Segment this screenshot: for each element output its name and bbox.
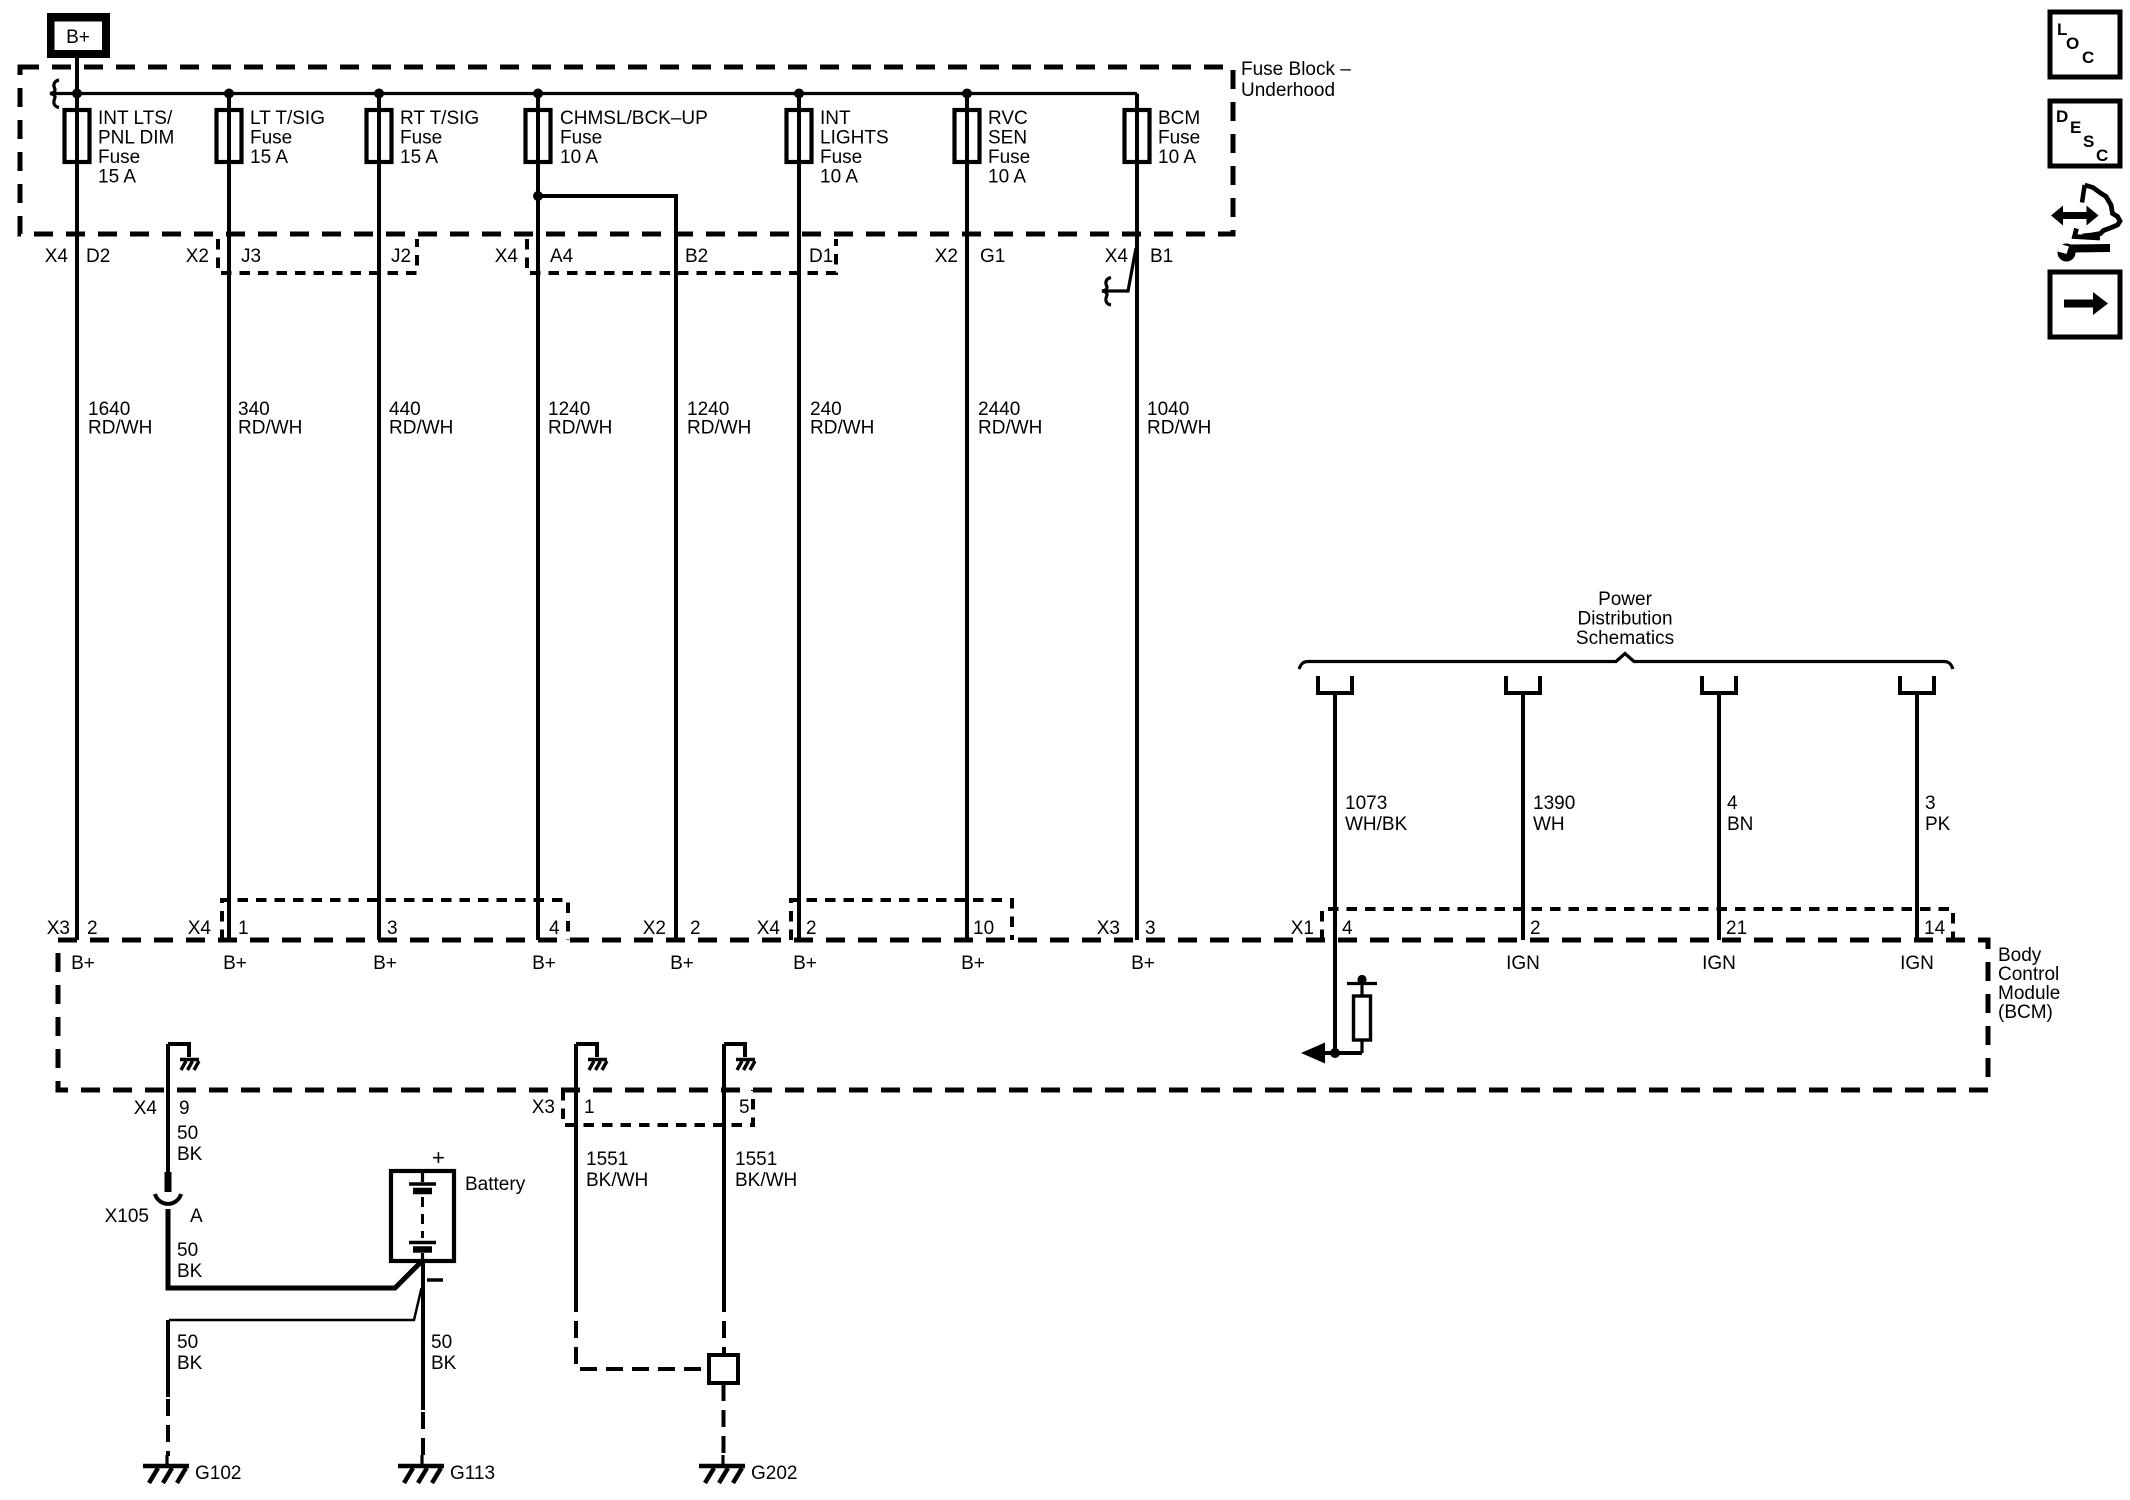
node: bus junction fuse 4 bbox=[533, 89, 543, 99]
wire label 1390 WH bbox=[1533, 793, 1575, 835]
svg-text:Fuse: Fuse bbox=[1158, 128, 1200, 149]
label: fuse F4 bbox=[560, 108, 708, 168]
svg-text:X4: X4 bbox=[188, 918, 212, 939]
svg-text:B+: B+ bbox=[223, 953, 247, 974]
connector symbol: feed to X1-14 bbox=[1900, 676, 1934, 693]
svg-text:B+: B+ bbox=[670, 953, 694, 974]
svg-text:A: A bbox=[190, 1206, 203, 1227]
svg-text:IGN: IGN bbox=[1702, 953, 1736, 974]
fuse F3 RT T/SIG bbox=[367, 110, 392, 162]
svg-text:O: O bbox=[2066, 34, 2079, 53]
node: CHMSL branch junction bbox=[533, 191, 543, 201]
wire: internal X1-4 horizontal bbox=[1322, 1051, 1362, 1055]
svg-text:1073: 1073 bbox=[1345, 793, 1387, 814]
fuse F7 BCM bbox=[1125, 110, 1150, 162]
splice block bbox=[709, 1355, 738, 1383]
wire label 2440 RD/WH bbox=[978, 399, 1042, 439]
connector X1 dotted box (BCM pins 4,2,21,14) bbox=[1322, 909, 1953, 940]
svg-text:RD/WH: RD/WH bbox=[1147, 418, 1211, 439]
svg-text:BK/WH: BK/WH bbox=[735, 1170, 797, 1191]
svg-text:3: 3 bbox=[1145, 918, 1156, 939]
svg-text:RD/WH: RD/WH bbox=[687, 418, 751, 439]
svg-text:X2: X2 bbox=[186, 246, 209, 267]
svg-text:B+: B+ bbox=[793, 953, 817, 974]
svg-text:10 A: 10 A bbox=[1158, 147, 1196, 168]
wire label 240 RD/WH bbox=[810, 399, 874, 439]
ground (BCM internal, X3-5) bbox=[724, 1044, 755, 1070]
svg-text:X1: X1 bbox=[1291, 918, 1314, 939]
svg-text:RVC: RVC bbox=[988, 108, 1028, 129]
svg-text:E: E bbox=[2070, 118, 2081, 137]
svg-text:WH/BK: WH/BK bbox=[1345, 814, 1408, 835]
wire label 50 BK (G113) bbox=[431, 1332, 457, 1374]
wire label 50 BK (G102) bbox=[177, 1332, 203, 1374]
svg-text:4: 4 bbox=[1727, 793, 1738, 814]
label: Fuse Block - Underhood bbox=[1241, 59, 1351, 101]
wire label 1073 WH/BK bbox=[1345, 793, 1408, 835]
ground G102 bbox=[143, 1455, 189, 1483]
connector X2 dotted box (pins J3,J2) bbox=[218, 239, 417, 273]
svg-text:9: 9 bbox=[179, 1098, 190, 1119]
svg-text:RD/WH: RD/WH bbox=[238, 418, 302, 439]
svg-text:X2: X2 bbox=[643, 918, 666, 939]
wire: BCM X4-9 ground lead bbox=[166, 1044, 170, 1174]
svg-text:A4: A4 bbox=[550, 246, 574, 267]
svg-text:(BCM): (BCM) bbox=[1998, 1002, 2053, 1023]
svg-text:SEN: SEN bbox=[988, 128, 1027, 149]
svg-text:RD/WH: RD/WH bbox=[810, 418, 874, 439]
svg-text:X3: X3 bbox=[532, 1097, 555, 1118]
svg-text:B1: B1 bbox=[1150, 246, 1173, 267]
wire label 3 PK bbox=[1925, 793, 1951, 835]
fuse F2 LT T/SIG bbox=[217, 110, 242, 162]
wire continuation squiggle at bus start bbox=[50, 80, 59, 108]
svg-text:Fuse: Fuse bbox=[98, 147, 140, 168]
svg-text:10 A: 10 A bbox=[820, 167, 858, 188]
wire label 1240 RD/WH (A4) bbox=[548, 399, 612, 439]
svg-text:1: 1 bbox=[238, 918, 249, 939]
svg-text:BN: BN bbox=[1727, 814, 1753, 835]
svg-text:INT LTS/: INT LTS/ bbox=[98, 108, 173, 129]
svg-text:15 A: 15 A bbox=[250, 147, 288, 168]
svg-text:C: C bbox=[2082, 48, 2094, 67]
svg-text:Module: Module bbox=[1998, 983, 2060, 1004]
svg-text:Fuse: Fuse bbox=[988, 147, 1030, 168]
connector X4 dotted box (pins A4,B2,D1) bbox=[527, 239, 836, 273]
svg-text:Distribution: Distribution bbox=[1577, 609, 1672, 630]
svg-text:WH: WH bbox=[1533, 814, 1565, 835]
wire continuation marker at B1 bbox=[1102, 248, 1136, 305]
connector X4 dotted box (BCM pins 1,3,4) bbox=[222, 900, 568, 940]
svg-text:INT: INT bbox=[820, 108, 851, 129]
wire: power feed 1390 WH bbox=[1521, 693, 1525, 940]
svg-text:50: 50 bbox=[431, 1332, 452, 1353]
svg-text:X105: X105 bbox=[105, 1206, 149, 1227]
node: bus junction fuse 6 bbox=[962, 89, 972, 99]
svg-text:BK: BK bbox=[177, 1261, 203, 1282]
svg-text:Schematics: Schematics bbox=[1576, 628, 1674, 649]
svg-text:Underhood: Underhood bbox=[1241, 80, 1335, 101]
icon: LOC reference box bbox=[2050, 12, 2120, 77]
svg-text:4: 4 bbox=[1342, 918, 1353, 939]
svg-text:3: 3 bbox=[1925, 793, 1936, 814]
fuse F1 INT LTS/PNL DIM bbox=[65, 110, 90, 162]
wire: BCM X3-5 ground lead bbox=[722, 1044, 726, 1295]
wire: BCM X3-1 ground lead bbox=[574, 1044, 578, 1295]
svg-text:3: 3 bbox=[387, 918, 398, 939]
svg-text:10 A: 10 A bbox=[988, 167, 1026, 188]
label: fuse F2 bbox=[250, 108, 325, 168]
svg-text:IGN: IGN bbox=[1506, 953, 1540, 974]
svg-text:1551: 1551 bbox=[586, 1149, 628, 1170]
label: fuse F7 bbox=[1158, 108, 1200, 168]
svg-text:2: 2 bbox=[87, 918, 98, 939]
wire: battery negative lead down bbox=[421, 1261, 425, 1410]
svg-text:Control: Control bbox=[1998, 964, 2059, 985]
resistor: BCM internal load bbox=[1347, 975, 1377, 1053]
label: fuse F6 bbox=[988, 108, 1030, 188]
icon: vehicle diagnostic with wrench bbox=[2051, 185, 2120, 262]
wire label 1551 BK/WH (right) bbox=[735, 1149, 797, 1191]
wire label 4 BN bbox=[1727, 793, 1753, 835]
svg-text:LT T/SIG: LT T/SIG bbox=[250, 108, 325, 129]
svg-text:1551: 1551 bbox=[735, 1149, 777, 1170]
ground (BCM internal, X4-9) bbox=[168, 1044, 199, 1070]
svg-text:Fuse Block –: Fuse Block – bbox=[1241, 59, 1351, 80]
wire: BCM fuse to BCM pin X3-3 bbox=[1135, 94, 1139, 941]
svg-text:B+: B+ bbox=[532, 953, 556, 974]
icon: DESC reference box bbox=[2050, 101, 2120, 166]
wire: RT T/SIG fuse to BCM pin X4-3 bbox=[377, 94, 381, 941]
svg-text:14: 14 bbox=[1924, 918, 1946, 939]
svg-text:Fuse: Fuse bbox=[560, 128, 602, 149]
svg-text:5: 5 bbox=[739, 1097, 750, 1118]
svg-text:B+: B+ bbox=[66, 27, 90, 48]
connector X3 dotted box (BCM pins 1,5) bbox=[563, 1090, 753, 1125]
svg-text:BCM: BCM bbox=[1158, 108, 1200, 129]
svg-text:G102: G102 bbox=[195, 1463, 241, 1484]
wire (dashed): X3-5 to splice bbox=[722, 1295, 726, 1354]
wire (dashed): splice to G202 bbox=[722, 1384, 726, 1456]
ground G202 bbox=[699, 1455, 745, 1483]
svg-text:Battery: Battery bbox=[465, 1174, 526, 1195]
node: bus junction at B+ drop bbox=[72, 89, 82, 99]
svg-text:2: 2 bbox=[690, 918, 701, 939]
node: bus junction fuse 3 bbox=[374, 89, 384, 99]
svg-text:X3: X3 bbox=[1097, 918, 1120, 939]
svg-text:X4: X4 bbox=[45, 246, 69, 267]
svg-text:RD/WH: RD/WH bbox=[389, 418, 453, 439]
svg-text:X3: X3 bbox=[47, 918, 70, 939]
label: Body Control Module (BCM) bbox=[1998, 945, 2060, 1023]
wire: INT LIGHTS fuse to BCM pin X4-2 bbox=[797, 94, 801, 941]
svg-text:4: 4 bbox=[549, 918, 560, 939]
svg-text:B2: B2 bbox=[685, 246, 708, 267]
svg-text:LIGHTS: LIGHTS bbox=[820, 128, 889, 149]
svg-text:50: 50 bbox=[177, 1240, 198, 1261]
label: fuse F1 bbox=[98, 108, 174, 188]
ground G113 bbox=[398, 1455, 444, 1483]
wire: LT T/SIG fuse to BCM pin X4-1 bbox=[227, 94, 231, 941]
wire label 1040 RD/WH bbox=[1147, 399, 1211, 439]
arrow: internal circuit continues bbox=[1301, 1043, 1325, 1064]
svg-text:D1: D1 bbox=[809, 246, 833, 267]
bus wire B+ distribution bbox=[52, 92, 1137, 95]
svg-text:J3: J3 bbox=[241, 246, 261, 267]
svg-text:RD/WH: RD/WH bbox=[978, 418, 1042, 439]
svg-text:X4: X4 bbox=[495, 246, 519, 267]
svg-text:Fuse: Fuse bbox=[820, 147, 862, 168]
fuse F6 RVC SEN bbox=[955, 110, 980, 162]
svg-text:10: 10 bbox=[973, 918, 994, 939]
label: Power Distribution Schematics bbox=[1576, 589, 1674, 649]
svg-text:S: S bbox=[2083, 132, 2094, 151]
svg-text:21: 21 bbox=[1726, 918, 1747, 939]
svg-text:G202: G202 bbox=[751, 1463, 797, 1484]
wire: X105 to battery negative bbox=[168, 1209, 421, 1288]
label: fuse F3 bbox=[400, 108, 479, 168]
ground (BCM internal, X3-1) bbox=[576, 1044, 607, 1070]
svg-text:RD/WH: RD/WH bbox=[88, 418, 152, 439]
svg-text:BK: BK bbox=[177, 1144, 203, 1165]
wire: power feed 1073 WH/BK bbox=[1333, 693, 1337, 1053]
fuse block underhood dashed box bbox=[20, 67, 1233, 234]
brace for power distribution sources bbox=[1299, 654, 1953, 670]
svg-text:X4: X4 bbox=[1105, 246, 1129, 267]
svg-text:G113: G113 bbox=[450, 1463, 495, 1484]
svg-text:J2: J2 bbox=[391, 246, 411, 267]
svg-text:BK: BK bbox=[431, 1353, 457, 1374]
svg-text:RT T/SIG: RT T/SIG bbox=[400, 108, 479, 129]
svg-text:CHMSL/BCK–UP: CHMSL/BCK–UP bbox=[560, 108, 708, 129]
svg-text:C: C bbox=[2096, 146, 2108, 165]
wire: branch CHMSL to B2 bbox=[538, 196, 676, 940]
wire label 1640 RD/WH bbox=[88, 399, 152, 439]
connector symbol: feed to X1-2 bbox=[1506, 676, 1540, 693]
svg-text:RD/WH: RD/WH bbox=[548, 418, 612, 439]
svg-text:10 A: 10 A bbox=[560, 147, 598, 168]
wire label 340 RD/WH bbox=[238, 399, 302, 439]
svg-text:B+: B+ bbox=[373, 953, 397, 974]
svg-text:Power: Power bbox=[1598, 589, 1653, 610]
icon: continuation arrow box bbox=[2050, 272, 2120, 337]
svg-text:Body: Body bbox=[1998, 945, 2042, 966]
svg-text:Fuse: Fuse bbox=[250, 128, 292, 149]
wire label 50 BK (upper) bbox=[177, 1123, 203, 1165]
connector symbol: feed to X1-21 bbox=[1702, 676, 1736, 693]
svg-text:15 A: 15 A bbox=[98, 167, 136, 188]
svg-text:+: + bbox=[432, 1145, 445, 1170]
label: battery - terminal bbox=[427, 1278, 443, 1282]
svg-text:2: 2 bbox=[1530, 918, 1541, 939]
connector X105 inline bbox=[155, 1172, 181, 1204]
body control module dashed box bbox=[58, 940, 1988, 1090]
wire: ground branch to G102 bbox=[169, 1288, 422, 1320]
B+ power terminal box bbox=[47, 13, 110, 58]
svg-text:50: 50 bbox=[177, 1332, 198, 1353]
wire label 50 BK (below X105) bbox=[177, 1240, 203, 1282]
wire: power feed 3 PK bbox=[1915, 693, 1919, 940]
svg-text:B+: B+ bbox=[71, 953, 95, 974]
wire: RVC SEN fuse to BCM pin X4-10 bbox=[965, 94, 969, 941]
svg-text:PK: PK bbox=[1925, 814, 1951, 835]
svg-text:D: D bbox=[2056, 107, 2068, 126]
svg-text:D2: D2 bbox=[86, 246, 110, 267]
node: bus junction fuse 5 bbox=[794, 89, 804, 99]
label: fuse F5 bbox=[820, 108, 889, 188]
battery bbox=[391, 1171, 454, 1261]
connector symbol: feed to X1-4 bbox=[1318, 676, 1352, 693]
wire: G102 drop bbox=[166, 1320, 170, 1397]
wire label 440 RD/WH bbox=[389, 399, 453, 439]
wire (dashed): to G113 bbox=[421, 1412, 425, 1456]
node: bus junction fuse 2 bbox=[224, 89, 234, 99]
svg-text:IGN: IGN bbox=[1900, 953, 1934, 974]
wire: CHMSL fuse to BCM pin X4-4 bbox=[536, 94, 540, 941]
wire: B+ feed drop to bus bbox=[75, 58, 79, 110]
svg-text:B+: B+ bbox=[1131, 953, 1155, 974]
svg-text:X2: X2 bbox=[935, 246, 958, 267]
svg-text:1390: 1390 bbox=[1533, 793, 1575, 814]
svg-text:Fuse: Fuse bbox=[400, 128, 442, 149]
wire label 1551 BK/WH (left) bbox=[586, 1149, 648, 1191]
wire label 1240 RD/WH (B2) bbox=[687, 399, 751, 439]
wire (dashed): X3-1 to splice bbox=[576, 1295, 707, 1369]
wire (dashed): to G102 bbox=[166, 1399, 170, 1456]
svg-text:X4: X4 bbox=[757, 918, 781, 939]
svg-text:15 A: 15 A bbox=[400, 147, 438, 168]
svg-text:B+: B+ bbox=[961, 953, 985, 974]
wire: INT LTS fuse output to BCM pin X3-2 bbox=[75, 94, 79, 941]
svg-text:1: 1 bbox=[584, 1097, 595, 1118]
node: X1-4 internal junction bbox=[1330, 1048, 1340, 1058]
svg-text:BK: BK bbox=[177, 1353, 203, 1374]
svg-text:2: 2 bbox=[806, 918, 817, 939]
wire: power feed 4 BN bbox=[1717, 693, 1721, 940]
svg-text:BK/WH: BK/WH bbox=[586, 1170, 648, 1191]
svg-text:PNL DIM: PNL DIM bbox=[98, 128, 174, 149]
svg-text:50: 50 bbox=[177, 1123, 198, 1144]
svg-text:G1: G1 bbox=[980, 246, 1005, 267]
fuse F5 INT LIGHTS bbox=[787, 110, 812, 162]
connector X4 dotted box (BCM pins 2,10) bbox=[791, 900, 1012, 940]
svg-text:X4: X4 bbox=[134, 1098, 158, 1119]
fuse F4 CHMSL/BCK-UP bbox=[526, 110, 551, 162]
